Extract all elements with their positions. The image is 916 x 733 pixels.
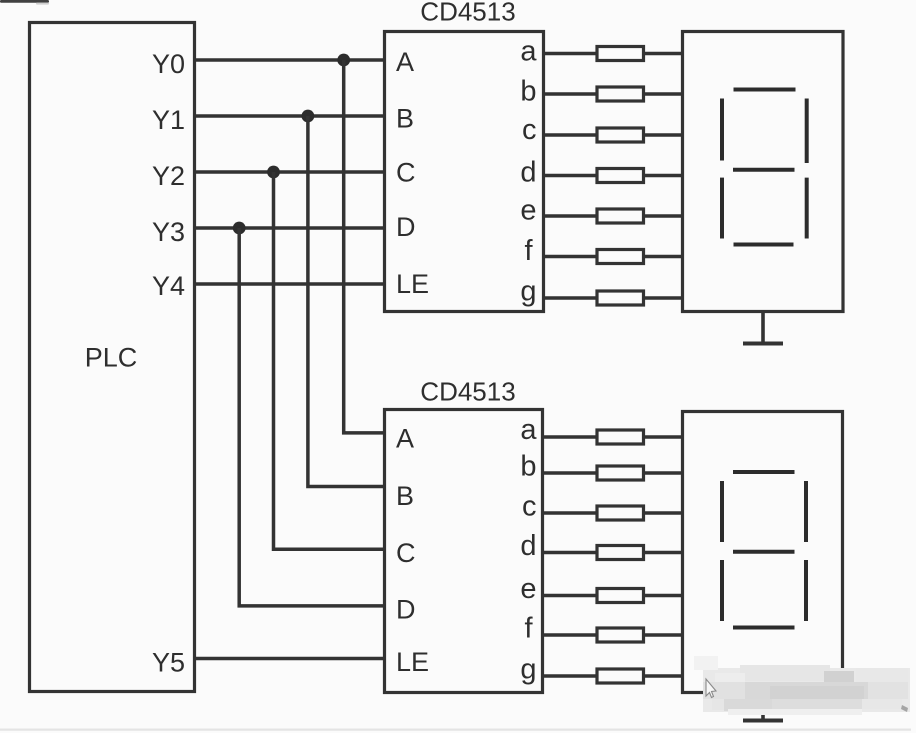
svg-text:B: B [396, 104, 414, 134]
wire U3 c to R10 [543, 511, 598, 515]
wire R11 to display DS2 [644, 551, 683, 555]
junction node on Y2 [267, 166, 280, 179]
wire U2 d to R4 [544, 174, 598, 178]
wire R5 to display DS1 [644, 214, 683, 218]
DS2 segment e (lower-left) [720, 560, 724, 621]
DS1 segment d (bottom) [734, 243, 794, 247]
svg-text:Y2: Y2 [152, 161, 185, 191]
watermark blur patch (mosaic) [694, 656, 910, 715]
7-segment display DS2 box [683, 412, 843, 693]
7-segment display DS1 box [683, 32, 844, 312]
DS2 segment f (upper-left) [720, 481, 724, 542]
resistor R4 [597, 169, 644, 183]
CD4513 chip U3 box [385, 410, 543, 693]
svg-text:b: b [520, 76, 536, 108]
DS1 segment e (lower-left) [720, 178, 724, 239]
svg-text:d: d [520, 157, 536, 189]
resistor R14 [597, 669, 644, 683]
wire Y0 drop to U3 pin A [344, 60, 385, 433]
wire Y3 to U2 pin D [195, 226, 385, 230]
wire R12 to display DS2 [644, 594, 683, 598]
wire U3 f to R13 [543, 633, 598, 637]
svg-text:a: a [520, 36, 537, 68]
PLC box U1 [30, 23, 195, 692]
svg-text:CD4513: CD4513 [420, 377, 515, 407]
DS1 segment b (upper-right) [805, 99, 809, 164]
svg-text:LE: LE [396, 647, 429, 677]
wire R14 to display DS2 [644, 674, 683, 678]
resistor R6 [597, 250, 644, 264]
wire U2 f to R6 [544, 255, 598, 259]
wire U2 e to R5 [544, 214, 598, 218]
wire R2 to display DS1 [644, 92, 683, 96]
CD4513 chip U2 box [385, 32, 544, 312]
svg-text:g: g [520, 276, 536, 308]
wire R13 to display DS2 [644, 633, 683, 637]
DS1 segment c (lower-right) [805, 178, 809, 239]
svg-text:b: b [520, 451, 536, 483]
svg-text:A: A [396, 47, 414, 77]
wire Y5 to U3 pin LE [195, 657, 385, 661]
resistor R12 [597, 589, 644, 603]
svg-text:B: B [396, 481, 414, 511]
svg-text:g: g [520, 654, 536, 686]
svg-text:Y5: Y5 [152, 648, 185, 678]
DS1 segment g (middle) [733, 168, 795, 172]
svg-text:C: C [396, 158, 416, 188]
svg-text:c: c [522, 491, 537, 523]
bottom divider line [0, 729, 911, 731]
svg-text:f: f [524, 235, 533, 267]
svg-text:f: f [524, 613, 533, 645]
wire Y3 drop to U3 pin D [239, 228, 384, 606]
resistor R2 [597, 87, 644, 101]
wire R10 to display DS2 [644, 511, 683, 515]
wire U2 a to R1 [544, 52, 598, 56]
wire Y2 to U2 pin C [195, 170, 385, 174]
svg-text:a: a [520, 414, 537, 446]
DS2 segment b (upper-right) [804, 481, 808, 542]
resistor R10 [597, 506, 644, 520]
DS2 segment c (lower-right) [804, 560, 808, 621]
resistor R5 [597, 209, 644, 223]
DS2 segment a (top) [733, 470, 795, 474]
resistor R9 [597, 466, 644, 480]
wire U2 g to R7 [544, 296, 598, 300]
wire U3 e to R12 [543, 594, 598, 598]
wire U3 d to R11 [543, 551, 598, 555]
DS1 segment a (top) [734, 88, 796, 92]
resistor R13 [597, 628, 644, 642]
resistor R11 [597, 546, 644, 560]
wire R8 to display DS2 [644, 435, 683, 439]
svg-text:e: e [520, 195, 536, 227]
wire Y1 drop to U3 pin B [308, 116, 385, 487]
svg-text:A: A [396, 424, 414, 454]
wire Y1 to U2 pin B [195, 114, 385, 118]
wire U3 a to R8 [543, 435, 598, 439]
svg-text:Y0: Y0 [152, 49, 185, 79]
DS2 segment d (bottom) [733, 626, 795, 630]
ground symbol of DS2 [743, 693, 783, 721]
junction node on Y3 [233, 222, 246, 235]
svg-text:e: e [520, 573, 536, 605]
svg-text:D: D [396, 212, 416, 242]
wire Y4 to U2 pin LE [195, 282, 385, 286]
svg-text:c: c [522, 114, 537, 146]
svg-text:Y1: Y1 [152, 105, 185, 135]
wire R9 to display DS2 [644, 471, 683, 475]
partial line artifact top-left [0, 0, 49, 5]
wire U2 b to R2 [544, 92, 598, 96]
svg-text:PLC: PLC [85, 343, 138, 373]
wire R1 to display DS1 [644, 52, 683, 56]
svg-text:CD4513: CD4513 [420, 0, 515, 27]
wire U2 c to R3 [544, 133, 598, 137]
resistor R3 [597, 128, 644, 142]
resistor R7 [597, 291, 644, 305]
junction node on Y1 [302, 110, 315, 123]
resistor R8 [597, 430, 644, 444]
ground symbol of DS1 [743, 312, 783, 344]
svg-text:C: C [396, 538, 416, 568]
svg-text:Y3: Y3 [152, 217, 185, 247]
wire Y0 to U2 pin A [195, 58, 385, 62]
wire Y2 drop to U3 pin C [274, 172, 385, 549]
wire R4 to display DS1 [644, 174, 683, 178]
DS1 segment f (upper-left) [720, 99, 724, 161]
svg-text:D: D [396, 595, 416, 625]
wire R3 to display DS1 [644, 133, 683, 137]
svg-text:d: d [520, 530, 536, 562]
junction node on Y0 [337, 54, 350, 67]
wire R6 to display DS1 [644, 255, 683, 259]
wire R7 to display DS1 [644, 296, 683, 300]
svg-text:Y4: Y4 [152, 271, 185, 301]
svg-text:LE: LE [396, 269, 429, 299]
wire U3 b to R9 [543, 471, 598, 475]
resistor R1 [597, 47, 644, 61]
DS2 segment g (middle) [733, 550, 795, 554]
wire U3 g to R14 [543, 674, 598, 678]
